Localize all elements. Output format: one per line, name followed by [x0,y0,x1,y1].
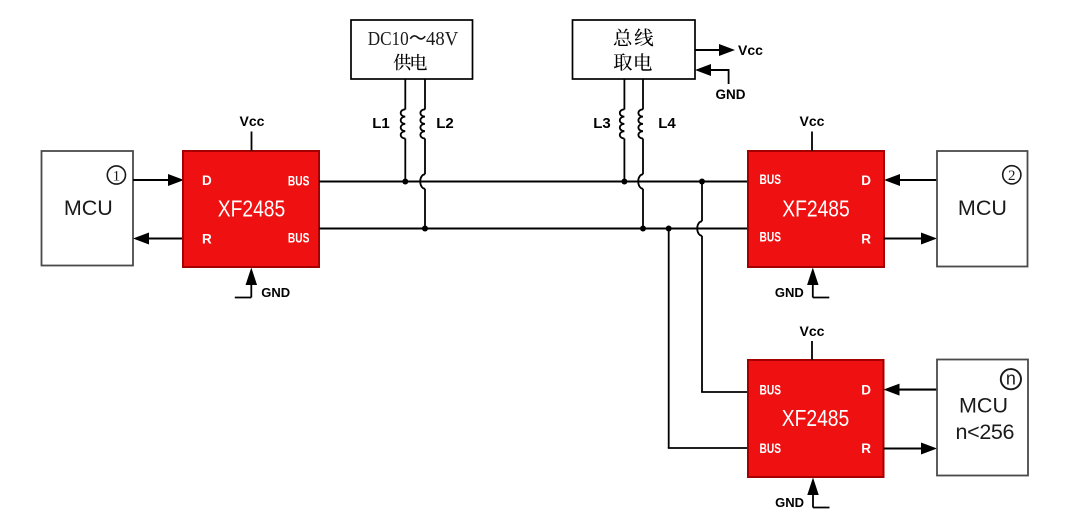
svg-text:XF2485: XF2485 [218,196,286,222]
MCU node 1 box [42,151,134,266]
svg-text:R: R [861,231,871,246]
svg-text:GND: GND [775,285,804,300]
svg-text:BUS: BUS [288,230,310,245]
junction L2-busB [422,226,428,232]
ground GND pin U3 [775,478,829,511]
MCU node n box (n&lt;256) [937,360,1028,476]
svg-text:D: D [861,173,871,188]
svg-text:Vcc: Vcc [800,323,825,339]
wire busA drop to U3 BUS (hops busB) [697,182,748,393]
svg-text:BUS: BUS [760,229,782,244]
svg-text:L3: L3 [593,115,611,132]
MCU node 2 box [937,151,1028,267]
svg-text:XF2485: XF2485 [782,405,850,431]
svg-text:D: D [202,173,212,188]
power Vcc pin U3 [800,323,825,360]
svg-text:Vcc: Vcc [240,113,265,129]
wire bus line B (bottom) [319,227,748,229]
svg-text:R: R [861,441,871,456]
ground GND pin U1 [235,268,290,301]
power Vcc pin U1 [240,113,265,151]
svg-text:MCU: MCU [958,196,1007,220]
wire GND return of power-tap [695,64,746,102]
svg-text:GND: GND [775,495,804,510]
junction L3-busA [621,179,627,185]
wire bus line A (top) [319,180,748,182]
wire D: MCUn to U3 D pin [884,384,938,396]
wire R: U1 R pin to MCU1 [133,233,183,245]
svg-text:BUS: BUS [760,441,782,456]
svg-text:DC10: DC10 [368,28,409,50]
svg-text:L2: L2 [436,115,454,132]
transceiver U1 XF2485 [183,151,319,267]
svg-text:MCU: MCU [64,196,113,220]
wire D: MCU1 to U1 D pin [133,174,184,186]
svg-text:XF2485: XF2485 [782,196,850,222]
power Vcc pin U2 [800,113,825,151]
svg-text:2: 2 [1008,168,1016,184]
bus power-tap box [573,20,696,79]
wire R: U3 R pin to MCUn [884,443,938,455]
inductor L1 [372,79,405,182]
svg-text:BUS: BUS [288,173,310,188]
DC supply source DC10~48V [351,20,473,79]
svg-text:L4: L4 [658,115,676,132]
junction busB-drop [666,226,672,232]
svg-text:48V: 48V [426,28,458,50]
svg-text:n<256: n<256 [956,420,1015,444]
svg-text:1: 1 [113,168,121,184]
wire R: U2 R pin to MCU2 [884,233,937,245]
svg-text:GND: GND [261,285,290,300]
svg-text:D: D [861,382,871,397]
svg-text:n: n [1006,368,1016,388]
ground GND pin U2 [775,268,829,301]
wire Vcc output of power-tap [695,42,763,58]
junction busA-drop [699,179,705,185]
junction L1-busA [402,179,408,185]
svg-text:L1: L1 [372,115,390,132]
transceiver U2 XF2485 [748,151,884,267]
svg-text:BUS: BUS [760,383,782,398]
svg-text:Vcc: Vcc [738,42,763,58]
transceiver U3 XF2485 [748,360,884,477]
svg-text:MCU: MCU [959,394,1008,418]
junction L4-busB [640,226,646,232]
inductor L2 [420,79,454,229]
inductor L3 [593,79,624,182]
inductor L4 [638,79,676,229]
svg-text:Vcc: Vcc [800,113,825,129]
svg-text:BUS: BUS [760,172,782,187]
svg-text:R: R [202,231,212,246]
wire D: MCU2 to U2 D pin [884,174,937,186]
wire busB drop to U3 BUS [668,229,748,449]
svg-text:GND: GND [716,87,746,102]
